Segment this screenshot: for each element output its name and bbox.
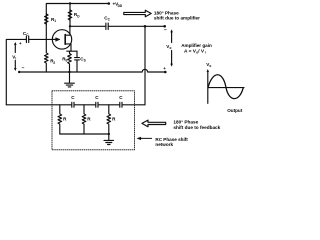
resistor R network 2	[82, 105, 91, 134]
node drain junction	[69, 25, 71, 27]
annotation arrow RC network	[137, 137, 152, 140]
capacitor C3 network	[119, 95, 123, 107]
resistor R1	[45, 14, 57, 24]
label RC phase shift network	[155, 137, 188, 147]
label 180 phase feedback	[173, 119, 220, 129]
wire feedback RC line	[6, 104, 145, 106]
svg-text:DD: DD	[118, 4, 123, 8]
wire RD branch	[69, 4, 71, 27]
svg-text:−: −	[22, 65, 25, 71]
wire top supply rail	[46, 4, 108, 40]
label Vi arrow	[12, 42, 16, 71]
svg-text:S: S	[65, 59, 67, 63]
waveform axes	[207, 69, 244, 103]
svg-text:D: D	[77, 15, 80, 19]
svg-text:network: network	[155, 142, 173, 147]
wire RC network bottom	[60, 133, 109, 135]
label amplifier gain	[181, 43, 212, 54]
svg-text:RC Phase shift: RC Phase shift	[155, 137, 188, 142]
node rail right end	[164, 71, 167, 74]
capacitor CC output	[104, 15, 110, 29]
node output terminal top	[163, 25, 166, 28]
ground network	[104, 134, 114, 145]
dashed box RC network	[52, 91, 135, 150]
wire ground rail with hop	[19, 69, 165, 72]
svg-text:i: i	[15, 57, 16, 61]
svg-text:Amplifier gain: Amplifier gain	[181, 43, 212, 48]
resistor R network 1	[58, 105, 67, 134]
node ground junction	[68, 71, 70, 73]
label minus output	[164, 27, 167, 33]
node network ground junction	[108, 133, 110, 135]
svg-text:R: R	[87, 117, 91, 122]
node rail left end	[18, 71, 20, 73]
svg-text:Output: Output	[227, 108, 243, 113]
svg-text:R: R	[63, 117, 67, 122]
wire drain output line	[70, 25, 165, 27]
svg-text:o: o	[170, 46, 172, 50]
resistor RS	[62, 51, 71, 72]
wire feedback vertical	[144, 26, 146, 105]
label Output	[227, 108, 243, 113]
svg-text:shift due to feedback: shift due to feedback	[173, 125, 220, 130]
svg-text:1: 1	[54, 19, 56, 23]
label Vo waveform	[206, 62, 211, 68]
svg-text:+: +	[19, 41, 22, 46]
svg-text:shift due to amplifier: shift due to amplifier	[154, 16, 200, 21]
svg-text:C: C	[108, 18, 111, 22]
node +VDD terminal	[108, 2, 111, 5]
node feedback tap	[144, 25, 147, 28]
svg-text:C: C	[119, 95, 123, 100]
resistor R network 3	[107, 105, 116, 134]
svg-text:S: S	[84, 59, 86, 63]
label +VDD	[113, 2, 123, 9]
svg-text:180° Phase: 180° Phase	[173, 119, 198, 124]
capacitor CC input	[23, 31, 29, 43]
wire source node bar	[67, 50, 77, 52]
resistor R2	[45, 39, 56, 72]
svg-text:R: R	[112, 117, 116, 122]
node rail/RD junction	[69, 2, 71, 4]
capacitor C2 network	[95, 95, 99, 107]
label plus Vo	[163, 66, 166, 71]
svg-text:C: C	[95, 95, 99, 100]
svg-text:A = V: A = V	[184, 48, 197, 54]
ground amplifier	[65, 72, 75, 87]
wire gate input line	[6, 39, 54, 104]
transistor Q1 JFET	[52, 26, 71, 51]
svg-text:+: +	[163, 66, 166, 71]
label plus Vi	[19, 41, 22, 46]
svg-text:2: 2	[53, 61, 55, 65]
annotation arrow amplifier phase	[124, 10, 151, 17]
label 180 phase amplifier	[154, 10, 200, 20]
label Vo arrow	[166, 29, 173, 66]
svg-text:−: −	[164, 27, 167, 33]
resistor RD	[68, 10, 80, 20]
svg-text:o: o	[209, 64, 211, 68]
annotation arrow feedback phase	[142, 120, 166, 127]
svg-text:C: C	[71, 95, 75, 100]
label minus Vi	[22, 65, 25, 71]
svg-text:i: i	[205, 50, 206, 54]
capacitor CS	[75, 51, 86, 72]
svg-text:180° Phase: 180° Phase	[154, 10, 179, 15]
waveform sine	[208, 75, 243, 99]
capacitor C1 network	[71, 95, 75, 107]
